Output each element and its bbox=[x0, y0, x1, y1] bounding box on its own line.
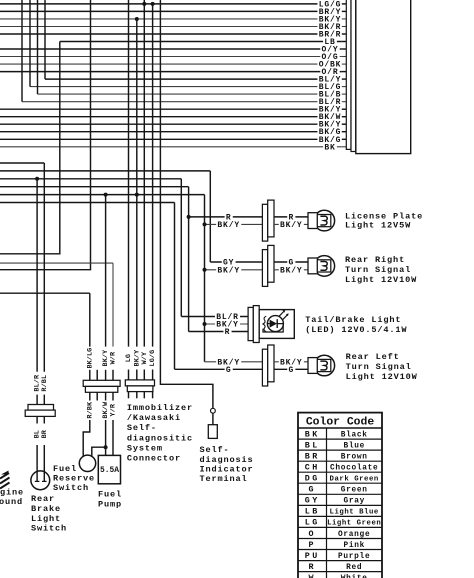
wire row 6 LB bbox=[60, 41, 342, 43]
pin stub below fuel connector x113.0 bbox=[112, 392, 114, 400]
pin stub below fuel connector x89.8 bbox=[89, 392, 91, 400]
svg-text:BK/Y: BK/Y bbox=[217, 221, 240, 230]
svg-text:Ground: Ground bbox=[0, 497, 23, 507]
svg-text:R: R bbox=[225, 328, 231, 337]
junction BK/Y row3 to immobilizer vertical bbox=[135, 17, 139, 21]
connector tail brake light bbox=[248, 307, 253, 340]
junction row1 LG/G vertical bbox=[151, 2, 155, 6]
wire row 18 BK/G stub bbox=[342, 131, 347, 133]
wire row 6 LB stub bbox=[342, 41, 347, 43]
label BK/Y bbox=[216, 358, 241, 366]
wire GY to rear right signal bbox=[210, 261, 262, 263]
label R bbox=[287, 213, 295, 221]
wire row 2 BR/Y stub bbox=[342, 10, 347, 12]
wire BK/W to fuel pump bbox=[105, 420, 107, 455]
svg-text:W/R: W/R bbox=[110, 351, 118, 364]
svg-text:Indicator: Indicator bbox=[200, 465, 254, 475]
pin stub above immobilizer connector x136.8 bbox=[136, 370, 138, 380]
wire vertical BL/R x22 bbox=[21, 0, 23, 102]
connector main-harness strip 2 bbox=[351, 0, 356, 152]
wire row 4 BK/R stub bbox=[342, 26, 347, 28]
svg-text:BK: BK bbox=[324, 143, 335, 152]
label BK/G bbox=[317, 128, 342, 136]
label BK/Y bbox=[279, 358, 304, 366]
wire row 1 LG/G bbox=[0, 3, 342, 5]
svg-text:System: System bbox=[127, 443, 163, 453]
wire LG vertical x128.5 bbox=[128, 0, 130, 347]
wire R/BL drop x44.3 bbox=[43, 163, 45, 372]
svg-text:GY: GY bbox=[305, 496, 320, 506]
label G bbox=[287, 366, 295, 374]
LED symbol bbox=[267, 316, 283, 332]
label BK/W bbox=[317, 113, 342, 121]
wire row 2 BR/Y bbox=[0, 10, 342, 12]
wire R license right bbox=[274, 216, 308, 218]
label GY bbox=[222, 258, 236, 266]
connector immobilizer 4-pin bbox=[125, 380, 154, 386]
wire R/BL stub to brake connector bbox=[43, 395, 45, 405]
pin stub below fuel connector x105.6 bbox=[105, 392, 107, 400]
wire BL/R stub to brake connector bbox=[36, 395, 38, 405]
svg-text:W/Y: W/Y bbox=[141, 351, 149, 364]
wire G to rear left signal bbox=[175, 368, 263, 370]
svg-text:Fuel: Fuel bbox=[53, 464, 77, 474]
wire vertical x90.5 to left exit y269.7 bbox=[0, 0, 91, 270]
wire terminal stem bbox=[212, 413, 214, 425]
junction BK/Y bus to rear right wire bbox=[203, 268, 207, 272]
wire row 12 BL/G bbox=[30, 86, 342, 88]
svg-text:diagnositic: diagnositic bbox=[127, 433, 193, 443]
wire BK/W branch to fuel reserve switch bbox=[92, 447, 106, 457]
label BK/Y bbox=[317, 15, 342, 23]
svg-text:Self-: Self- bbox=[127, 423, 157, 433]
svg-text:Chocolate: Chocolate bbox=[330, 464, 378, 472]
connector fuel pump 4-pin bbox=[83, 380, 120, 386]
svg-text:(LED) 12V0.5/4.1W: (LED) 12V0.5/4.1W bbox=[305, 325, 407, 335]
wire row 16 BK/W bbox=[0, 116, 342, 118]
wire row 8 O/G bbox=[0, 56, 342, 58]
svg-text:O: O bbox=[308, 529, 315, 539]
svg-text:PU: PU bbox=[305, 551, 320, 561]
svg-text:G: G bbox=[288, 366, 294, 375]
svg-text:5.5A: 5.5A bbox=[100, 466, 119, 475]
wire LG/G vertical x152.6 bbox=[152, 4, 154, 347]
wire row 15 BK/Y stub bbox=[342, 108, 347, 110]
svg-text:LB: LB bbox=[305, 507, 320, 517]
pin stub above fuel connector x105.6 bbox=[105, 370, 107, 381]
wire row 12 BL/G stub bbox=[342, 86, 347, 88]
wire row 5 BR/R stub bbox=[342, 33, 347, 35]
svg-text:BR: BR bbox=[41, 429, 49, 438]
wire BK/Y fuel drop x105.6 bbox=[105, 195, 107, 347]
wire W/Y vertical x144.3 bbox=[143, 0, 145, 347]
wire row 8 O/G stub bbox=[342, 56, 347, 58]
wire GY drop x210.3 bbox=[209, 171, 211, 262]
wire R/BK to fuel reserve switch bbox=[83, 420, 90, 457]
wire row 13 BL/B stub bbox=[342, 93, 347, 95]
wire row 1 LG/G stub bbox=[342, 3, 347, 5]
svg-text:BK/Y: BK/Y bbox=[280, 221, 303, 230]
wire BK/LG drop x89.8 bbox=[89, 293, 91, 346]
wire row 7 O/Y stub bbox=[342, 48, 347, 50]
svg-text:LG: LG bbox=[125, 354, 133, 362]
label LB bbox=[323, 38, 337, 46]
wire row 11 BL/Y stub bbox=[342, 78, 347, 80]
wire BK/Y license right bbox=[274, 223, 308, 225]
wire BK/Y to rear left signal bbox=[205, 361, 263, 363]
wire BK/Y rear left right side bbox=[274, 361, 308, 363]
label BK bbox=[323, 143, 337, 151]
wire vertical BL/G x30 bbox=[29, 0, 31, 87]
svg-text:Terminal: Terminal bbox=[200, 474, 248, 484]
LED tail brake light box bbox=[259, 310, 294, 339]
wire self-diagnosis x160.4 bbox=[160, 0, 213, 408]
svg-text:Self-: Self- bbox=[200, 445, 230, 455]
svg-text:P: P bbox=[308, 540, 315, 550]
svg-text:R: R bbox=[308, 562, 315, 572]
svg-text:Light Blue: Light Blue bbox=[330, 509, 379, 517]
wire G rear right bbox=[274, 261, 308, 263]
svg-text:Pump: Pump bbox=[98, 500, 122, 510]
junction BK/Y row to fuel drop bbox=[104, 193, 108, 197]
svg-text:BK/LG: BK/LG bbox=[86, 348, 94, 369]
svg-text:Gray: Gray bbox=[343, 498, 365, 506]
pin stub above fuel connector x89.8 bbox=[89, 370, 91, 381]
svg-text:Immobilizer: Immobilizer bbox=[127, 403, 193, 413]
lamp license plate light bbox=[314, 210, 335, 231]
wire BR into brake switch bbox=[43, 445, 45, 481]
svg-text:Light: Light bbox=[31, 514, 61, 524]
wire R drop x188.6 bbox=[188, 187, 190, 332]
svg-text:Light 12V10W: Light 12V10W bbox=[346, 372, 418, 382]
wire BK/Y vertical x136.8 bbox=[136, 19, 138, 347]
svg-text:G: G bbox=[226, 366, 232, 375]
svg-text:Green: Green bbox=[341, 487, 368, 495]
svg-text:Switch: Switch bbox=[31, 524, 67, 534]
svg-text:R/BK: R/BK bbox=[86, 401, 94, 419]
svg-text:Fuel: Fuel bbox=[98, 490, 122, 500]
pin stub below immobilizer connector x144.3 bbox=[143, 392, 145, 399]
wire row 4 BK/R bbox=[0, 26, 342, 28]
label BR/Y bbox=[317, 8, 342, 16]
svg-text:BK/Y: BK/Y bbox=[217, 266, 240, 275]
wire row 17 BK/Y bbox=[0, 123, 342, 125]
wire BK/Y to rear right signal bbox=[205, 269, 263, 271]
svg-text:G: G bbox=[308, 485, 315, 495]
wire BL into brake switch bbox=[36, 445, 38, 481]
connector rear brake light switch bbox=[28, 405, 54, 411]
wire BL/R to tail light bbox=[181, 316, 248, 318]
wire R to tail light bbox=[189, 331, 249, 333]
svg-text:Brake: Brake bbox=[31, 504, 61, 514]
svg-text:Rear Left: Rear Left bbox=[346, 352, 400, 362]
pin stub below immobilizer connector x136.8 bbox=[136, 392, 138, 399]
lamp rear right turn signal bbox=[314, 256, 335, 277]
label G bbox=[225, 366, 233, 374]
svg-text:CH: CH bbox=[305, 462, 320, 472]
label BK/Y bbox=[216, 266, 241, 274]
fuel reserve switch bbox=[79, 455, 95, 471]
label R bbox=[225, 213, 233, 221]
label O/Y bbox=[320, 45, 339, 53]
svg-text:Blue: Blue bbox=[343, 442, 365, 450]
wire BL/R drop x37.1 bbox=[36, 179, 38, 372]
junction BK/Y bus to tail wire bbox=[203, 322, 207, 326]
label BR/R bbox=[317, 30, 342, 38]
svg-text:/Kawasaki: /Kawasaki bbox=[127, 413, 181, 423]
wire BL stub below brake connector bbox=[36, 416, 38, 423]
svg-text:BL: BL bbox=[305, 440, 320, 450]
junction R drop to license wire bbox=[187, 215, 191, 219]
pin stub above immobilizer connector x152.6 bbox=[152, 370, 154, 380]
label BK/Y bbox=[215, 320, 240, 328]
wire row 14 BL/R bbox=[22, 101, 342, 103]
svg-text:Connector: Connector bbox=[127, 454, 181, 464]
wire row 9 O/BK stub bbox=[342, 63, 347, 65]
connector main-harness body bbox=[356, 0, 411, 154]
wire vertical BL/Y x45 bbox=[44, 0, 46, 79]
svg-text:R/BL: R/BL bbox=[41, 375, 49, 392]
wire row 11 BL/Y bbox=[45, 78, 342, 80]
svg-text:Y/R: Y/R bbox=[110, 403, 118, 416]
junction row1 W/Y vertical bbox=[142, 2, 146, 6]
label BL/B bbox=[317, 90, 342, 98]
label R bbox=[223, 328, 231, 336]
wire row 16 BK/W stub bbox=[342, 116, 347, 118]
svg-text:Orange: Orange bbox=[338, 531, 370, 539]
wire GY row y170.9 bbox=[0, 170, 210, 172]
wire G rear left right side bbox=[274, 368, 308, 370]
wire row 10 O/R stub bbox=[342, 71, 347, 73]
wire row 3 BK/Y stub bbox=[342, 18, 347, 20]
wire row 19 BK/G bbox=[0, 138, 342, 140]
label O/R bbox=[320, 68, 339, 76]
label BK/G bbox=[317, 136, 342, 144]
svg-text:DG: DG bbox=[305, 474, 320, 484]
wire BL/R drop x181.3 bbox=[180, 179, 182, 317]
svg-text:Dark Green: Dark Green bbox=[330, 476, 379, 484]
svg-text:Reserve: Reserve bbox=[53, 474, 95, 484]
wire row 5 BR/R bbox=[0, 33, 342, 35]
wire row 20 BK bbox=[0, 146, 342, 148]
svg-text:BK/Y: BK/Y bbox=[280, 266, 303, 275]
wire row 13 BL/B bbox=[38, 93, 342, 95]
pin stub above fuel connector x97.2 bbox=[96, 370, 98, 381]
junction BK/W branch bbox=[104, 445, 108, 449]
connector main-harness strip 1 bbox=[346, 0, 351, 149]
pin stub below fuel connector x97.2 bbox=[96, 392, 98, 400]
wire R to license plate bbox=[189, 216, 263, 218]
wire row 19 BK/G stub bbox=[342, 138, 347, 140]
svg-text:Pink: Pink bbox=[343, 542, 365, 550]
pin stub below immobilizer connector x152.6 bbox=[152, 392, 154, 399]
wire BK/Y bus drop x204.5 bbox=[204, 195, 206, 362]
label BL/R bbox=[317, 98, 342, 106]
junction BL/R row to brake drop bbox=[35, 177, 39, 181]
wire row 10 O/R bbox=[0, 71, 342, 73]
svg-text:diagnosis: diagnosis bbox=[200, 455, 254, 465]
svg-text:Rear: Rear bbox=[31, 494, 55, 504]
terminal body bbox=[208, 425, 217, 439]
label BK/Y bbox=[216, 221, 241, 229]
connector license plate light bbox=[262, 204, 267, 241]
wire vertical BL/B x37.5 bbox=[37, 0, 39, 94]
wire BK/Y rear right bbox=[274, 269, 308, 271]
label BL/R bbox=[215, 313, 240, 321]
svg-text:Red: Red bbox=[346, 564, 362, 572]
connector rear right turn signal bbox=[262, 250, 267, 287]
wire LB drop x59.8 to left exit y253.8 bbox=[0, 42, 60, 254]
pin stub above immobilizer connector x128.5 bbox=[128, 370, 130, 380]
rear brake light switch bbox=[31, 471, 50, 490]
label O/BK bbox=[317, 60, 342, 68]
lamp rear left turn signal bbox=[314, 355, 335, 376]
wire W/R row y263.1 bbox=[0, 262, 113, 264]
wire Y/R to fuel pump bbox=[112, 420, 114, 455]
label BK/Y bbox=[317, 105, 342, 113]
label LG/G bbox=[317, 0, 342, 8]
label BL/Y bbox=[317, 75, 342, 83]
svg-text:BR: BR bbox=[305, 451, 320, 461]
pin stub below immobilizer connector x128.5 bbox=[128, 392, 130, 399]
wire row 9 O/BK bbox=[0, 63, 342, 65]
svg-text:LG: LG bbox=[305, 518, 320, 528]
svg-text:LG/G: LG/G bbox=[149, 350, 157, 367]
label BK/Y bbox=[317, 120, 342, 128]
wire W/R drop x113 bbox=[112, 263, 114, 347]
wire row 20 BK stub bbox=[342, 146, 347, 148]
svg-text:Tail/Brake Light: Tail/Brake Light bbox=[305, 315, 401, 325]
wire row 18 BK/G bbox=[0, 131, 342, 133]
fuel pump box bbox=[98, 455, 120, 483]
wire R row y186.7 bbox=[0, 186, 189, 188]
wire G row y202.5 bbox=[0, 202, 175, 204]
wire BK/Y to tail light bbox=[205, 323, 249, 325]
wire BK/Y row y194.6 bbox=[0, 194, 205, 196]
wire row 3 BK/Y bbox=[0, 18, 342, 20]
wire BK/LG row y293.2 bbox=[0, 292, 90, 294]
svg-text:Light 12V5W: Light 12V5W bbox=[345, 221, 411, 231]
svg-text:Light Green: Light Green bbox=[327, 520, 381, 528]
label BK/R bbox=[317, 23, 342, 31]
pin stub above fuel connector x113.0 bbox=[112, 370, 114, 381]
label BK/Y bbox=[279, 266, 304, 274]
junction BK/Y row to immobilizer vertical bbox=[135, 193, 139, 197]
self-diagnosis indicator terminal bbox=[211, 408, 216, 413]
label O/G bbox=[320, 53, 339, 61]
junction BK/Y bus to license wire bbox=[203, 222, 207, 226]
wire R/BL row y163 bbox=[0, 162, 44, 164]
svg-text:Rear Right: Rear Right bbox=[345, 255, 405, 265]
wire BL/R row y178.8 bbox=[0, 178, 181, 180]
svg-text:Turn Signal: Turn Signal bbox=[346, 362, 412, 372]
wire G drop x174.5 bbox=[174, 203, 176, 370]
svg-text:BK: BK bbox=[305, 429, 320, 439]
pin stub above immobilizer connector x144.3 bbox=[143, 370, 145, 380]
wire BR stub below brake connector bbox=[43, 416, 45, 423]
label BL/G bbox=[317, 83, 342, 91]
wire row 14 BL/R stub bbox=[342, 101, 347, 103]
wire row 7 O/Y bbox=[0, 48, 342, 50]
color code table bbox=[298, 413, 382, 578]
svg-text:Light 12V10W: Light 12V10W bbox=[345, 275, 417, 285]
svg-text:Turn Signal: Turn Signal bbox=[345, 265, 411, 275]
wire row 17 BK/Y stub bbox=[342, 123, 347, 125]
svg-text:Purple: Purple bbox=[338, 553, 370, 561]
label G bbox=[287, 258, 295, 266]
connector rear left turn signal bbox=[262, 349, 267, 386]
svg-text:Switch: Switch bbox=[53, 483, 89, 493]
svg-text:Brown: Brown bbox=[341, 453, 368, 461]
ground engine ground symbol bbox=[1, 471, 9, 475]
svg-text:Color Code: Color Code bbox=[306, 416, 375, 428]
svg-text:W: W bbox=[308, 573, 315, 578]
wire row 15 BK/Y bbox=[0, 108, 342, 110]
wire BK/Y to license plate bbox=[205, 223, 263, 225]
label BK/Y bbox=[279, 221, 304, 229]
svg-text:Black: Black bbox=[341, 431, 368, 439]
